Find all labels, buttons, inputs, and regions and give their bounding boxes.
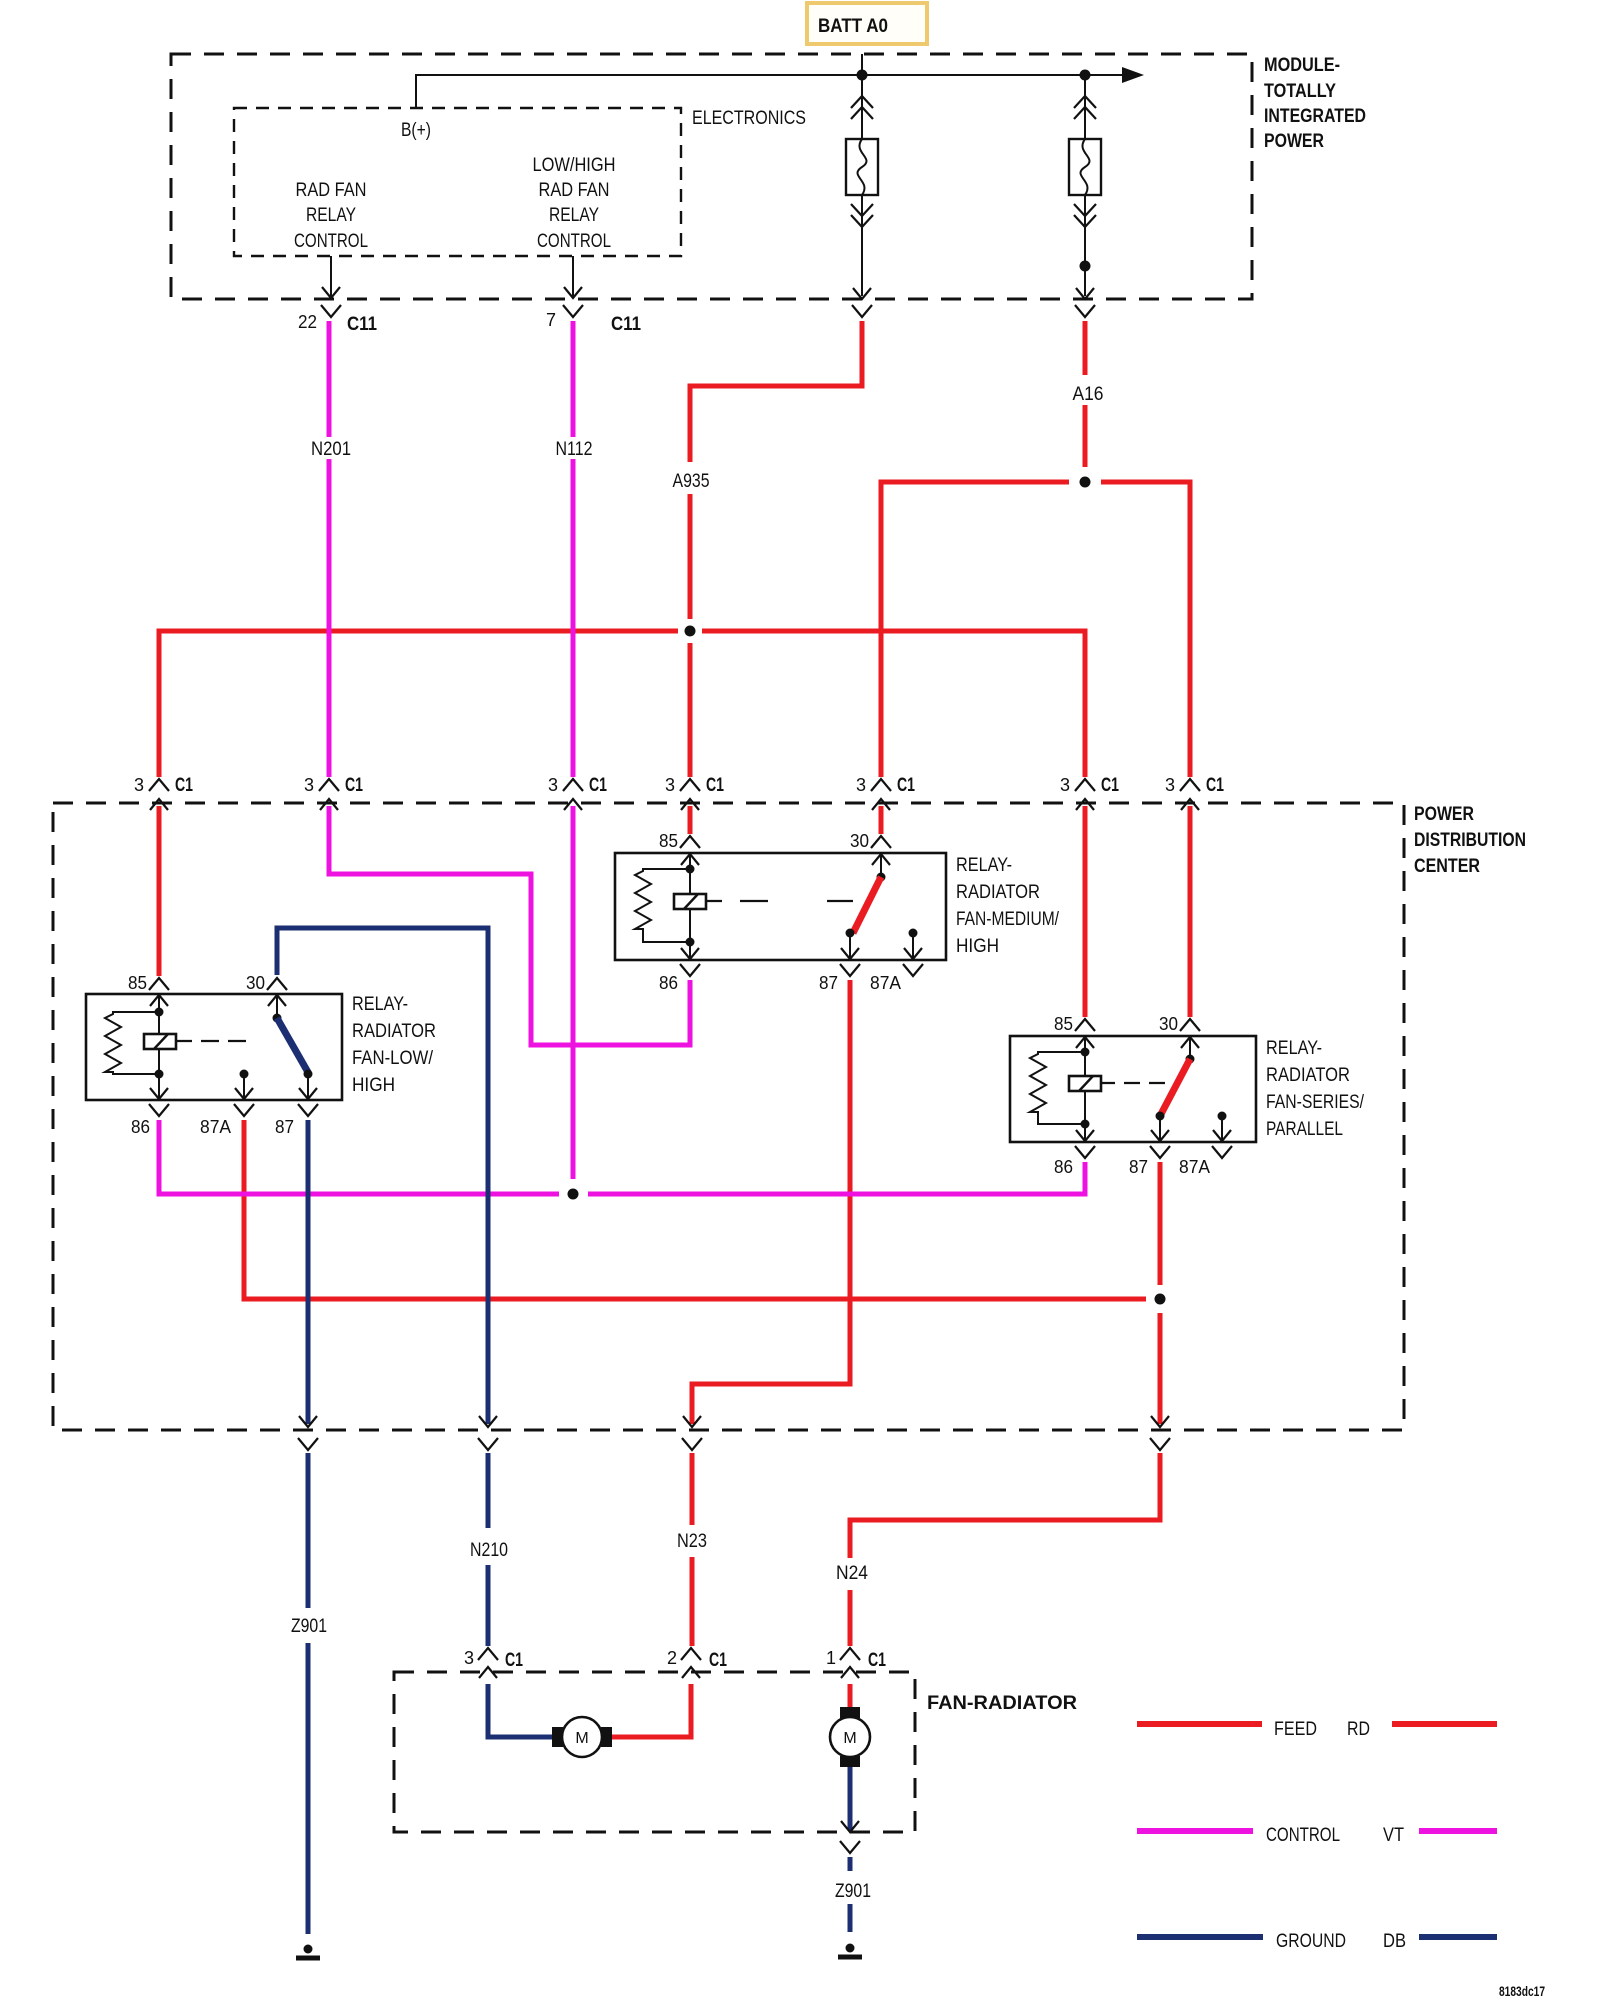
wire Z901 navy relay low/high 87 to ground xyxy=(306,1120,311,1934)
svg-text:3: 3 xyxy=(548,775,558,795)
wire BATT riser xyxy=(861,54,863,75)
motor M1 xyxy=(552,1717,612,1757)
wire red relay low/high 87A to junction xyxy=(244,1120,1146,1299)
relay medium pin87 stub xyxy=(846,929,855,938)
svg-text:7: 7 xyxy=(546,310,556,330)
connector C1 pin3 fan xyxy=(464,1648,523,1678)
svg-text:FAN-LOW/: FAN-LOW/ xyxy=(352,1048,434,1069)
PDC exit arrows Z901 xyxy=(298,1416,318,1450)
svg-text:N112: N112 xyxy=(556,439,593,460)
connector C1 pin3 c xyxy=(548,775,607,810)
relay low/high dashed link xyxy=(176,1040,246,1042)
legend ground DB xyxy=(1137,1931,1497,1952)
svg-text:ELECTRONICS: ELECTRONICS xyxy=(692,108,806,129)
relay medium switch xyxy=(853,877,881,933)
svg-text:86: 86 xyxy=(1054,1157,1073,1177)
svg-text:87: 87 xyxy=(1129,1157,1148,1177)
svg-text:GROUND: GROUND xyxy=(1276,1931,1346,1952)
svg-text:87: 87 xyxy=(275,1117,294,1137)
relay low/high resistor xyxy=(105,1012,159,1074)
relay radiator fan low/high box xyxy=(86,994,342,1100)
relay low/high label xyxy=(352,994,436,1096)
svg-text:CENTER: CENTER xyxy=(1414,856,1480,877)
svg-text:VT: VT xyxy=(1383,1825,1404,1846)
wire navy relay low/high 30 to N210 xyxy=(277,928,552,1737)
relay series pin87A chevron xyxy=(1179,1146,1232,1177)
svg-text:3: 3 xyxy=(304,775,314,795)
wire red stub C1 to relay medium pin30 xyxy=(879,806,884,834)
svg-text:N24: N24 xyxy=(836,1563,868,1584)
svg-text:C1: C1 xyxy=(1206,775,1224,796)
svg-text:RD: RD xyxy=(1347,1719,1370,1740)
wire red stub C1 to relay low/high pin85 xyxy=(157,806,162,976)
svg-text:86: 86 xyxy=(131,1117,150,1137)
svg-text:30: 30 xyxy=(1159,1014,1178,1034)
svg-text:C1: C1 xyxy=(709,1650,727,1671)
svg-text:C11: C11 xyxy=(611,314,641,335)
power distribution center dashed box xyxy=(53,803,1404,1430)
relay series pin30 stub xyxy=(1189,1036,1191,1059)
svg-text:3: 3 xyxy=(1060,775,1070,795)
svg-text:C1: C1 xyxy=(345,775,363,796)
relay series switch xyxy=(1160,1059,1190,1116)
fan exit arrow Z901 xyxy=(840,1821,860,1853)
relay series label xyxy=(1266,1038,1365,1140)
svg-text:DB: DB xyxy=(1383,1931,1406,1952)
svg-text:30: 30 xyxy=(246,973,265,993)
relay low/high pin85 chevron xyxy=(128,973,169,993)
wire N201 magenta control xyxy=(329,321,690,1045)
fuse F2 lower wire xyxy=(1084,195,1086,296)
relay low/high switch xyxy=(277,1018,309,1074)
wire A935 red feed from fuse1 xyxy=(690,321,862,777)
svg-text:CONTROL: CONTROL xyxy=(537,231,611,252)
wire magenta 86 bus left xyxy=(159,1120,559,1194)
relay series pin85 chevron xyxy=(1054,1014,1095,1034)
relay medium resistor xyxy=(635,869,690,942)
node fuse2 lower xyxy=(1080,261,1091,272)
svg-text:C1: C1 xyxy=(706,775,724,796)
bus arrowhead xyxy=(1122,67,1144,83)
svg-text:B(+): B(+) xyxy=(401,120,431,141)
svg-text:POWER: POWER xyxy=(1414,804,1474,825)
fuse F1 wire xyxy=(861,75,863,139)
legend control VT xyxy=(1137,1825,1497,1846)
relay series pin30 chevron xyxy=(1159,1014,1200,1034)
fuse F1 xyxy=(846,139,878,195)
svg-text:A16: A16 xyxy=(1073,384,1104,405)
PDC exit arrows N23 xyxy=(682,1416,702,1450)
connector C1 pin3 d xyxy=(665,775,724,810)
relay series dashed link xyxy=(1101,1082,1168,1084)
wire N24 red relay series 87 to fan motor2 xyxy=(850,1162,1160,1716)
svg-text:C1: C1 xyxy=(1101,775,1119,796)
motor M2 xyxy=(830,1707,870,1767)
svg-text:TOTALLY: TOTALLY xyxy=(1264,81,1336,102)
svg-text:RELAY-: RELAY- xyxy=(1266,1038,1322,1059)
svg-text:LOW/HIGH: LOW/HIGH xyxy=(533,155,616,176)
relay medium pin30 chevron xyxy=(850,831,891,851)
relay radiator fan medium/high box xyxy=(615,853,946,960)
wire Z901 navy motor2 to ground xyxy=(848,1758,853,1932)
wire N23 red relay medium 87 to fan motor1 xyxy=(612,980,850,1737)
node bus-fuse1 xyxy=(857,70,868,81)
svg-text:FAN-SERIES/: FAN-SERIES/ xyxy=(1266,1092,1365,1113)
rad fan relay control label xyxy=(294,180,368,252)
wire red stub C1 to relay series pin30 xyxy=(1188,806,1193,1017)
node bus-fuse2 xyxy=(1080,70,1091,81)
relay low/high pin30 stub xyxy=(276,994,278,1018)
relay medium coil xyxy=(674,894,706,909)
node A935 junction xyxy=(685,626,696,637)
svg-text:RADIATOR: RADIATOR xyxy=(956,882,1040,903)
wire magenta 86 bus right xyxy=(588,1162,1085,1194)
svg-text:HIGH: HIGH xyxy=(956,936,999,957)
svg-text:M: M xyxy=(575,1730,588,1747)
svg-text:87: 87 xyxy=(819,973,838,993)
chevron below fuse2 xyxy=(1075,305,1095,317)
wire red stub C1 to relay series pin85 xyxy=(1083,806,1088,1017)
relay low/high pin87 stub xyxy=(304,1070,313,1079)
ground G901 left xyxy=(296,1945,320,1959)
connector C11 pin 7 xyxy=(546,305,641,335)
svg-text:N201: N201 xyxy=(311,439,351,460)
node 87A-87 junction xyxy=(1155,1294,1166,1305)
ground G901 right xyxy=(838,1944,862,1958)
svg-text:RAD FAN: RAD FAN xyxy=(539,180,610,201)
wire rad fan control output xyxy=(330,256,332,296)
wire A16 red feed from fuse2 xyxy=(1083,321,1088,467)
svg-text:85: 85 xyxy=(659,831,678,851)
relay medium coil line xyxy=(689,853,691,960)
svg-text:FAN-MEDIUM/: FAN-MEDIUM/ xyxy=(956,909,1060,930)
svg-text:3: 3 xyxy=(134,775,144,795)
svg-text:Z901: Z901 xyxy=(291,1616,327,1637)
relay series pin87A stub xyxy=(1218,1112,1227,1121)
node N112 junction xyxy=(568,1189,579,1200)
svg-text:C1: C1 xyxy=(868,1650,886,1671)
relay low/high pin86 chevron xyxy=(131,1104,169,1137)
svg-text:CONTROL: CONTROL xyxy=(294,231,368,252)
relay medium pin85 chevron xyxy=(659,831,700,851)
svg-text:C11: C11 xyxy=(347,314,377,335)
wire B+ bus xyxy=(416,75,1126,108)
svg-text:RADIATOR: RADIATOR xyxy=(352,1021,436,1042)
svg-text:C1: C1 xyxy=(589,775,607,796)
PDC exit arrows N24 xyxy=(1150,1416,1170,1450)
fuse F2 wire xyxy=(1084,75,1086,139)
relay medium label xyxy=(956,855,1060,957)
svg-text:RAD FAN: RAD FAN xyxy=(296,180,367,201)
svg-text:30: 30 xyxy=(850,831,869,851)
svg-text:RELAY-: RELAY- xyxy=(352,994,408,1015)
BATT A0 power tag xyxy=(807,3,927,44)
relay medium pin87A chevron xyxy=(870,964,923,993)
relay low/high coil line xyxy=(158,994,160,1100)
svg-text:3: 3 xyxy=(464,1648,474,1668)
relay series pin87 stub xyxy=(1156,1112,1165,1121)
relay series coil xyxy=(1069,1076,1101,1091)
svg-text:C1: C1 xyxy=(897,775,915,796)
relay series pin87 chevron xyxy=(1129,1146,1170,1177)
relay medium pin86 chevron xyxy=(659,964,700,993)
svg-text:POWER: POWER xyxy=(1264,131,1324,152)
svg-text:3: 3 xyxy=(856,775,866,795)
connector C1 pin3 b xyxy=(304,775,363,810)
svg-text:PARALLEL: PARALLEL xyxy=(1266,1119,1343,1140)
relay series resistor xyxy=(1030,1052,1085,1124)
relay low/high pin87A chevron xyxy=(200,1104,254,1137)
relay low/high coil xyxy=(144,1034,176,1049)
svg-text:HIGH: HIGH xyxy=(352,1075,395,1096)
chevron below fuse1 xyxy=(852,305,872,317)
svg-text:BATT A0: BATT A0 xyxy=(818,16,888,37)
svg-text:RELAY-: RELAY- xyxy=(956,855,1012,876)
svg-text:N210: N210 xyxy=(470,1540,508,1561)
connector C1 pin3 e xyxy=(856,775,915,810)
svg-text:M: M xyxy=(843,1730,856,1747)
svg-text:CONTROL: CONTROL xyxy=(1266,1825,1340,1846)
relay series pin86 chevron xyxy=(1054,1146,1095,1177)
wire red branch left to relay low/high 85 xyxy=(159,631,678,777)
svg-text:2: 2 xyxy=(667,1648,677,1668)
svg-text:C1: C1 xyxy=(505,1650,523,1671)
node A16 junction xyxy=(1080,477,1091,488)
svg-text:FEED: FEED xyxy=(1274,1719,1317,1740)
svg-text:Z901: Z901 xyxy=(835,1881,871,1902)
fuse F2 xyxy=(1069,139,1101,195)
svg-text:87A: 87A xyxy=(1179,1157,1210,1177)
wire red A16 branch to relay medium 30 xyxy=(881,482,1069,777)
svg-text:A935: A935 xyxy=(673,471,710,492)
relay low/high pin87 chevron xyxy=(275,1104,318,1137)
wire red A16 branch to relay series 30 xyxy=(1101,482,1190,777)
svg-text:INTEGRATED: INTEGRATED xyxy=(1264,106,1366,127)
connector C11 pin 22 xyxy=(298,305,377,335)
electronics dashed box xyxy=(234,108,681,256)
svg-text:87A: 87A xyxy=(870,973,901,993)
wire N112 magenta control xyxy=(571,321,576,1179)
module TIPM label xyxy=(1264,55,1366,152)
low/high rad fan relay control label xyxy=(533,155,616,252)
wire red stub C1 to relay medium pin85 xyxy=(688,806,693,834)
svg-text:RELAY: RELAY xyxy=(549,205,599,226)
connector C1 pin1 fan xyxy=(826,1648,886,1678)
relay medium pin87 chevron xyxy=(819,964,860,993)
module TIPM dashed box xyxy=(171,54,1252,299)
legend feed RD xyxy=(1137,1719,1497,1740)
svg-text:RADIATOR: RADIATOR xyxy=(1266,1065,1350,1086)
relay low/high pin87A stub xyxy=(240,1070,249,1079)
relay series coil line xyxy=(1084,1036,1086,1142)
svg-text:1: 1 xyxy=(826,1648,836,1668)
svg-text:RELAY: RELAY xyxy=(306,205,356,226)
svg-text:FAN-RADIATOR: FAN-RADIATOR xyxy=(927,1693,1077,1714)
relay medium pin30 stub xyxy=(880,853,882,877)
svg-text:C1: C1 xyxy=(175,775,193,796)
svg-text:3: 3 xyxy=(1165,775,1175,795)
connector C1 pin3 g xyxy=(1165,775,1224,810)
svg-text:MODULE-: MODULE- xyxy=(1264,55,1340,76)
PDC exit arrows N210 xyxy=(478,1416,498,1450)
svg-text:8183dc17: 8183dc17 xyxy=(1499,1983,1545,1999)
relay low/high pin30 chevron xyxy=(246,973,287,993)
relay medium dashed link xyxy=(706,900,856,902)
power distribution center label xyxy=(1414,804,1526,877)
connector C1 pin2 fan xyxy=(667,1648,727,1678)
fuse F1 lower wire xyxy=(861,195,863,296)
svg-text:DISTRIBUTION: DISTRIBUTION xyxy=(1414,830,1526,851)
svg-text:85: 85 xyxy=(128,973,147,993)
svg-text:3: 3 xyxy=(665,775,675,795)
svg-text:87A: 87A xyxy=(200,1117,231,1137)
svg-text:N23: N23 xyxy=(677,1531,707,1552)
svg-text:22: 22 xyxy=(298,312,317,332)
fan-radiator dashed box xyxy=(394,1672,915,1832)
connector C1 pin3 f xyxy=(1060,775,1119,810)
relay medium pin87A stub xyxy=(909,929,918,938)
connector C1 pin3 a xyxy=(134,775,193,810)
wire red branch right to relay series 85 xyxy=(702,631,1085,777)
svg-text:85: 85 xyxy=(1054,1014,1073,1034)
relay radiator fan series/parallel box xyxy=(1010,1036,1256,1142)
svg-text:86: 86 xyxy=(659,973,678,993)
wire low/high control output xyxy=(572,256,574,296)
